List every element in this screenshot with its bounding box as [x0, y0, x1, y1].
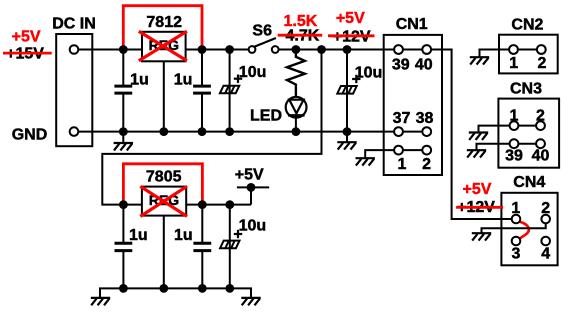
ground at CN3 row2 [467, 150, 486, 157]
labels 37 38 [393, 110, 434, 127]
labels 1 2 of CN2 [509, 55, 546, 72]
svg-text:40: 40 [532, 148, 550, 165]
ground under C4 [337, 132, 356, 150]
svg-text:CN1: CN1 [396, 16, 428, 33]
svg-text:40: 40 [415, 57, 433, 74]
svg-text:4: 4 [541, 246, 550, 263]
svg-text:LED: LED [250, 108, 282, 125]
strike-out line over +15V [3, 52, 52, 55]
labels 1 2 of CN3 [510, 107, 546, 124]
wire 7805 feed from top rail [102, 50, 321, 205]
svg-text:CN4: CN4 [513, 174, 545, 191]
regulator U1 7812 REG box [142, 32, 186, 62]
red X over 7812 [139, 31, 187, 61]
svg-text:1u: 1u [130, 72, 149, 89]
strike-out line over +12V [328, 34, 375, 37]
pin circle DC IN GND [70, 127, 79, 136]
svg-text:3: 3 [511, 246, 520, 263]
LED D1 [286, 96, 307, 132]
svg-text:2: 2 [538, 55, 547, 72]
ground at CN2 [470, 57, 489, 64]
svg-text:1: 1 [398, 156, 407, 173]
labels 1 2 of CN1 [398, 156, 432, 173]
connector CN2 box [499, 35, 558, 74]
plus mark of C4 [352, 75, 360, 83]
connector CN1 box [384, 35, 442, 175]
svg-text:38: 38 [416, 110, 434, 127]
svg-text:10u: 10u [239, 64, 267, 81]
svg-text:+5V: +5V [463, 181, 492, 198]
capacitor C1 1u [114, 50, 132, 132]
ground bottom left [91, 298, 110, 305]
ground at CN4 [472, 233, 491, 240]
svg-text:1u: 1u [129, 227, 148, 244]
red X over 7805 [140, 186, 187, 216]
labels 39 40 of CN3 [505, 148, 549, 165]
junction dots bottom rail [119, 284, 234, 293]
capacitor C6 1u [193, 205, 211, 289]
wire 7805 ground pin [163, 216, 165, 289]
pin circles CN2 [509, 45, 546, 54]
wire CN3 row1 to ground [479, 126, 541, 133]
svg-text:S6: S6 [252, 22, 272, 39]
svg-text:7805: 7805 [146, 169, 182, 186]
svg-text:39: 39 [505, 148, 523, 165]
wire CN4 pin2 to ground [482, 219, 546, 233]
svg-text:7812: 7812 [146, 14, 182, 31]
capacitor C7 10u electrolytic [220, 205, 239, 289]
ground at CN3 row1 [469, 133, 488, 140]
wire +5V output stub [237, 187, 269, 204]
pin circles CN1 1 2 [394, 146, 431, 155]
wire CN3 row2 to ground [477, 144, 541, 151]
wire top rail 7812 output to switch [186, 49, 252, 51]
strike-out line over +12V at CN4 [456, 206, 503, 209]
plus mark of C3 [234, 75, 242, 83]
wire top rail from DC IN to 7812 input [74, 49, 142, 51]
ground under GND rail near DC IN [114, 132, 133, 151]
pin circles CN4 [512, 215, 550, 246]
svg-text:1u: 1u [174, 227, 193, 244]
capacitor C2 1u [193, 50, 211, 132]
svg-text:GND: GND [12, 127, 48, 144]
svg-text:39: 39 [392, 57, 410, 74]
connector J1 DC IN box [56, 34, 92, 146]
pin circles CN1 37 38 [394, 127, 431, 136]
pin circle DC IN +5V [70, 45, 79, 54]
red jumper CN4 pin1 to pin3 [520, 222, 529, 239]
wire 7812 ground pin [163, 61, 165, 131]
wire bottom ground rail of 7805 stage [100, 288, 251, 298]
svg-text:DC IN: DC IN [52, 15, 96, 32]
capacitor C3 10u electrolytic [220, 50, 239, 132]
wire CN1 pin40 to CN4 pin1 [427, 50, 516, 220]
labels 1 2 of CN4 [511, 200, 550, 217]
plus mark of C7 [234, 230, 242, 238]
resistor R1 1.5K [287, 50, 305, 100]
svg-text:1: 1 [509, 55, 518, 72]
junction dots 7805 rails [119, 183, 255, 209]
pin circles CN1 39 40 [394, 45, 431, 54]
strike-out line over 4.7K [278, 34, 323, 37]
capacitor C5 1u [115, 205, 133, 289]
ground bottom right [241, 298, 260, 305]
wire top rail switch to CN1 pin 39 [275, 49, 422, 51]
regulator U2 7805 REG box [142, 187, 186, 216]
svg-text:1u: 1u [174, 72, 193, 89]
connector CN4 box [501, 193, 557, 265]
svg-text:1: 1 [511, 200, 520, 217]
wire 7805 output rail [186, 204, 251, 206]
wire CN2 pins to ground [480, 50, 542, 58]
junction dots top rail [119, 45, 352, 54]
ground at CN1 pin1 [356, 158, 375, 165]
red jumper bypassing 7812 [123, 6, 202, 50]
svg-text:2: 2 [422, 156, 431, 173]
connector CN3 box [498, 99, 559, 168]
svg-text:10u: 10u [239, 218, 267, 235]
wire CN1 pin1 row [365, 150, 427, 158]
svg-text:+5V: +5V [235, 167, 264, 184]
svg-text:CN2: CN2 [511, 17, 543, 34]
labels 3 4 of CN4 [511, 246, 550, 263]
junction dots GND rail [119, 127, 352, 136]
svg-text:CN3: CN3 [510, 81, 542, 98]
pin circles CN3 row2 [510, 139, 545, 148]
red jumper bypassing 7805 [123, 164, 202, 205]
capacitor C4 10u electrolytic [337, 50, 356, 132]
pin circles CN3 row1 [510, 121, 545, 130]
labels 39 40 [392, 57, 433, 74]
switch S6 [249, 38, 279, 53]
svg-text:+5V: +5V [336, 10, 365, 27]
svg-text:2: 2 [541, 200, 550, 217]
svg-text:+5V: +5V [12, 28, 41, 45]
wire GND rail from DC IN to CN1 pin 37 [74, 131, 422, 133]
svg-text:37: 37 [393, 110, 411, 127]
